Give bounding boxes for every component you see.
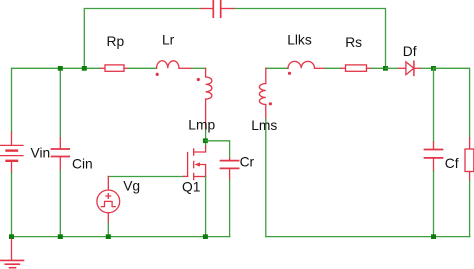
node rail-Cin	[58, 234, 63, 239]
node Rs-Df-feedback junction	[383, 66, 388, 71]
resistor Rp	[101, 65, 129, 71]
svg-text:Cr: Cr	[240, 154, 255, 169]
wire Vg to gate	[108, 176, 183, 178]
node top rail Cin junction	[58, 66, 63, 71]
svg-text:Lms: Lms	[251, 118, 277, 133]
wire node to Cr	[206, 141, 230, 159]
wire Cf branch lower	[433, 171, 435, 237]
svg-text:Lmp: Lmp	[188, 117, 215, 132]
node drain junction	[203, 138, 208, 143]
wire Rload to bottom rail	[469, 181, 471, 237]
wire Lms top corner	[266, 67, 288, 69]
svg-text:Rs: Rs	[345, 35, 362, 50]
resistor Rs	[341, 65, 371, 71]
wire Lr to Lmp corner	[192, 67, 206, 69]
node rail-Q1 source	[203, 234, 208, 239]
node top rail feedback junction	[82, 66, 87, 71]
wire Llks to Rs	[325, 67, 341, 69]
svg-text:Q1: Q1	[182, 180, 200, 195]
wire Q1 source to bottom rail	[205, 177, 207, 237]
wire Rs to node	[371, 67, 386, 69]
phase dot Lmp	[197, 78, 200, 81]
svg-text:Llks: Llks	[287, 33, 312, 48]
wire bottom secondary rail	[266, 236, 470, 238]
inductor Lmp	[206, 68, 212, 129]
capacitor Cf	[425, 142, 443, 171]
resistor Rload	[465, 138, 474, 181]
battery Vin	[1, 133, 24, 173]
wire output top to right corner	[434, 68, 470, 138]
wire Cin branch lower	[59, 171, 61, 237]
phase dot Llks	[288, 72, 291, 75]
inductor Llks	[288, 61, 325, 68]
svg-text:Lr: Lr	[162, 32, 175, 47]
wire Cf branch upper	[433, 68, 435, 142]
wire node to Df	[386, 67, 400, 69]
wire Lmp to drain node	[205, 129, 207, 146]
phase dot Lms	[269, 102, 272, 105]
inductor Lms	[259, 68, 265, 119]
svg-text:Cf: Cf	[445, 156, 459, 171]
inductor Lr	[157, 61, 193, 69]
wire Vin branch lower	[11, 173, 13, 237]
ground	[0, 239, 24, 268]
transistor Q1 (NMOS)	[184, 146, 206, 180]
wire top-left rail	[12, 67, 101, 69]
svg-text:Rp: Rp	[107, 34, 125, 49]
capacitor Cr	[221, 159, 239, 181]
node Df-Cf-load junction	[431, 66, 436, 71]
source Vg pulse generator	[97, 177, 120, 224]
wire bottom primary rail	[12, 236, 230, 238]
svg-text:Cin: Cin	[72, 157, 93, 172]
diode Df	[399, 61, 421, 75]
capacitor Cin	[52, 138, 70, 171]
wire Lms to bottom rail	[265, 119, 267, 237]
wire Cr to bottom rail	[229, 180, 231, 237]
wire Df to node	[421, 67, 434, 69]
svg-text:Vin: Vin	[31, 146, 51, 161]
wire Rp to Lr	[128, 67, 156, 69]
svg-text:Df: Df	[403, 44, 417, 59]
phase dot Lr	[156, 73, 159, 76]
wire Cin branch upper	[59, 68, 61, 138]
wire feedback link: node A up, across top, down to node B	[84, 9, 385, 69]
wire Vin branch upper	[11, 68, 13, 132]
capacitor Cfb (top feedback capacitor)	[201, 0, 234, 17]
arrow of Q1 body	[195, 162, 200, 166]
wire Vg to bottom rail	[107, 223, 109, 237]
node secondary rail Cf junction	[431, 234, 436, 239]
node rail-Vg	[106, 234, 111, 239]
node rail-ground	[9, 234, 14, 239]
svg-text:Vg: Vg	[123, 178, 140, 193]
